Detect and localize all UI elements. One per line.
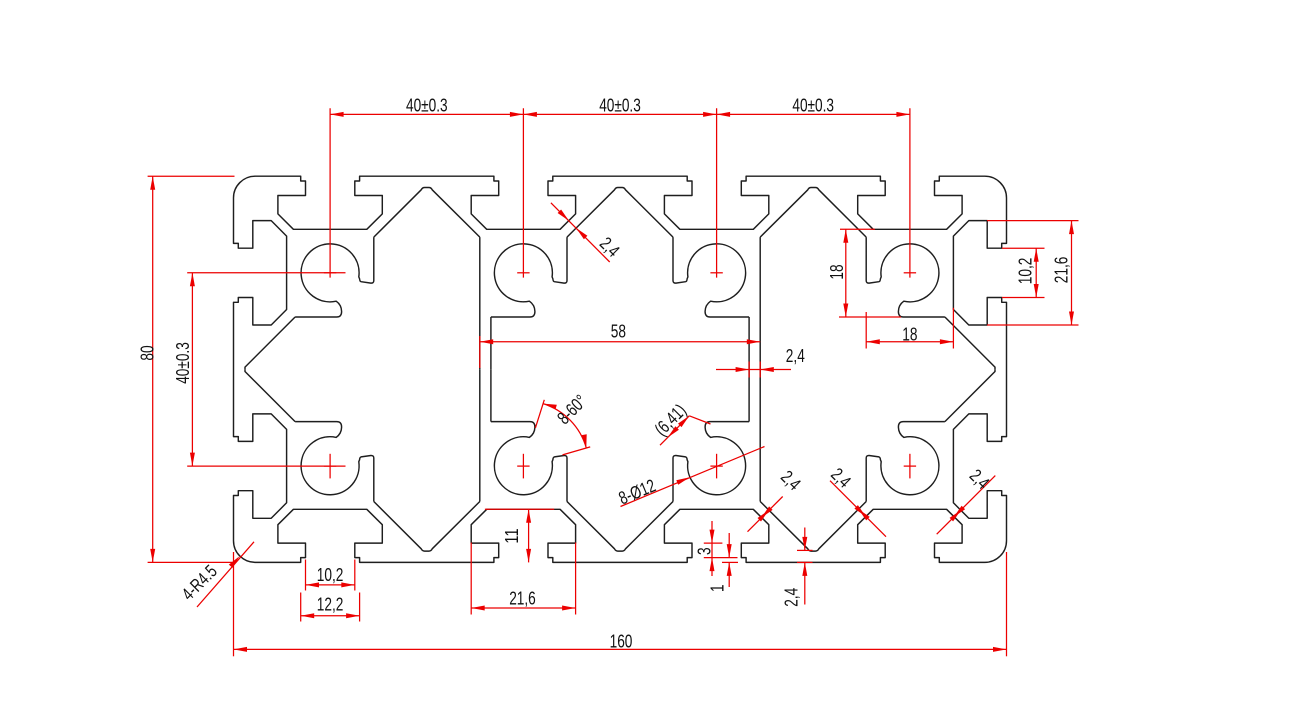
- leader 8-Ø12 bore callout: [616, 447, 765, 509]
- dimension 160 overall width: [234, 552, 1007, 656]
- end chamber chevron wall: [245, 317, 295, 369]
- tent chamber roof: [374, 188, 480, 238]
- hook channel web wall: [490, 369, 492, 421]
- svg-text:21,6: 21,6: [1051, 257, 1071, 284]
- angular dimension 8-60°: [535, 391, 590, 455]
- dimension 1 step depth: [708, 533, 738, 592]
- hook channel web wall: [748, 369, 750, 421]
- dimension 2,4 web thickness horizontal: [716, 346, 805, 378]
- tent chamber roof: [374, 501, 480, 551]
- svg-text:10,2: 10,2: [317, 565, 344, 585]
- dimension 58 between chamber walls: [480, 322, 760, 368]
- top-right quadrant internal walls (mirrored): [620, 188, 995, 370]
- end chamber chevron wall: [945, 317, 995, 369]
- center tent chamber roof half: [620, 188, 673, 238]
- bottom-left quadrant internal walls (mirrored): [245, 369, 620, 551]
- svg-text:10,2: 10,2: [1016, 258, 1036, 285]
- bore with side pocket and bottom hook: [491, 422, 567, 502]
- dimension 10,2 bottom slot mouth: [306, 560, 355, 591]
- dimension 2,4 diagonal channel bottom middle: [827, 464, 886, 537]
- svg-text:40±0.3: 40±0.3: [406, 96, 448, 116]
- tent chamber roof: [760, 188, 866, 238]
- bottom-right quadrant internal walls (mirrored): [620, 369, 995, 551]
- dimension 2,4 diagonal channel top: [551, 203, 624, 262]
- chamber side wall: [479, 237, 481, 369]
- svg-text:11: 11: [502, 528, 522, 543]
- svg-text:80: 80: [137, 345, 157, 360]
- bore with side pocket and bottom hook: [295, 237, 374, 317]
- bore with side pocket and bottom hook: [866, 237, 945, 317]
- dimension 2,4 diagonal channel bottom left: [748, 467, 805, 532]
- dimension 21,6 right face slot cavity: [987, 221, 1079, 325]
- dimension 12,2 bottom slot outer step: [301, 593, 360, 622]
- svg-text:58: 58: [611, 322, 626, 342]
- center tent chamber roof half: [567, 188, 620, 238]
- reference dimension (6,41): [651, 400, 711, 445]
- leader 4-R4.5 corner radius callout: [178, 542, 254, 607]
- svg-text:2,4: 2,4: [786, 346, 805, 366]
- bore with side pocket and bottom hook: [491, 237, 567, 317]
- end chamber chevron wall: [245, 369, 295, 421]
- hook channel web wall: [748, 317, 750, 369]
- bore with side pocket and bottom hook: [673, 237, 749, 317]
- svg-text:2,4: 2,4: [782, 588, 802, 607]
- dimension 10,2 right face slot mouth: [1002, 248, 1045, 297]
- svg-text:18: 18: [902, 325, 917, 345]
- svg-text:160: 160: [610, 632, 633, 652]
- top-left quadrant internal walls: [245, 188, 620, 370]
- hole center extension lines from top dimension chain: [330, 108, 910, 277]
- svg-text:12,2: 12,2: [317, 595, 344, 615]
- dimension 11 slot depth: [485, 509, 554, 562]
- svg-text:40±0.3: 40±0.3: [173, 342, 193, 384]
- end chamber chevron wall: [945, 369, 995, 421]
- svg-text:3: 3: [694, 547, 714, 555]
- svg-text:1: 1: [708, 584, 728, 592]
- dimension 18 vertical slot floor to hook line: [827, 229, 901, 317]
- bore with side pocket and bottom hook: [866, 422, 945, 502]
- hook channel web wall: [490, 317, 492, 369]
- dimension 80 overall height: [137, 176, 234, 562]
- svg-text:21,6: 21,6: [509, 588, 536, 608]
- bore with side pocket and bottom hook: [673, 422, 749, 502]
- svg-text:18: 18: [827, 264, 847, 279]
- svg-text:40±0.3: 40±0.3: [792, 96, 834, 116]
- profile outer boundary with 12 T-slots and R4.5 corners: [234, 176, 1007, 562]
- dimension 18 horizontal chamber wall to slot floor: [866, 308, 953, 349]
- chamber side wall: [759, 237, 761, 369]
- dimension 21,6 bottom slot cavity: [471, 543, 575, 615]
- dimension 2,4 diagonal corner channel bottom right: [937, 465, 996, 534]
- tent chamber roof: [760, 501, 866, 551]
- dimension 40±0.3 top chain: [330, 96, 910, 117]
- dimension 3 slot mouth wall height: [694, 521, 737, 576]
- dimension 40±0.3 hole row spacing left: [173, 273, 345, 466]
- bore center marks: [324, 273, 916, 479]
- center tent chamber roof half: [567, 501, 620, 551]
- bore with side pocket and bottom hook: [295, 422, 374, 502]
- center tent chamber roof half: [620, 501, 673, 551]
- chamber side wall: [479, 369, 481, 501]
- chamber side wall: [759, 369, 761, 501]
- svg-text:40±0.3: 40±0.3: [599, 96, 641, 116]
- dimension 2,4 tent peak to bottom face: [782, 528, 813, 607]
